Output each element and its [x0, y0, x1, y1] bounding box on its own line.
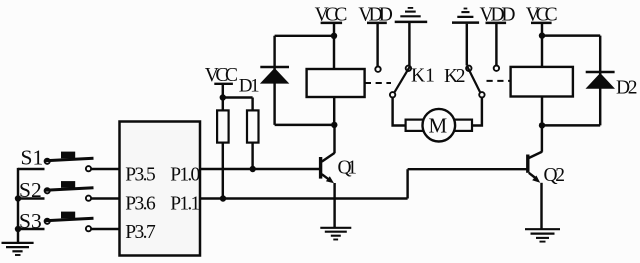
junction VCC-rail right — [539, 32, 545, 38]
svg-text:D2: D2 — [616, 78, 638, 99]
wire S2 to P3.6 — [91, 197, 119, 199]
transistor Q1 — [321, 153, 335, 183]
motor M — [423, 109, 456, 142]
resistor R1 — [217, 110, 229, 142]
contact K2 throw VDD — [494, 66, 499, 71]
wire emitter Q2 to ground — [540, 183, 542, 229]
ground under Q1 — [320, 228, 351, 240]
contact K1 throw GND — [406, 66, 411, 71]
wire K1 common to motor left — [393, 98, 406, 126]
wire collector Q1 riser — [333, 125, 335, 153]
wire S3 to P3.7 — [91, 228, 119, 230]
junction R2-P1.0 — [250, 166, 256, 172]
svg-text:D1: D1 — [239, 76, 260, 97]
svg-text:S1: S1 — [21, 146, 44, 170]
wire D1 branch vertical — [273, 36, 275, 125]
motor M brushes — [406, 120, 424, 131]
wire VCC down to coil K1 — [333, 24, 335, 70]
svg-text:Q2: Q2 — [544, 165, 566, 186]
wire collector Q2 riser — [541, 125, 543, 151]
junction rail-S2 — [15, 195, 21, 201]
svg-text:P1.1: P1.1 — [170, 194, 200, 215]
wire VCC to resistors — [223, 84, 253, 110]
contact K1 throw VDD — [375, 67, 380, 72]
wire net P1.1 to Q2 base — [200, 169, 527, 198]
junction VCC split — [220, 94, 226, 100]
mechanical link K2 (dashed) — [487, 80, 511, 82]
wire R2 to P1.0 net — [251, 143, 253, 169]
wire coil K1 to bottom rail — [333, 97, 335, 125]
wire ground to K2 throw — [466, 24, 468, 66]
svg-text:K1: K1 — [411, 66, 435, 87]
diode D2 — [586, 72, 616, 89]
contact K1 arm — [394, 67, 410, 93]
wire R1 to P1.1 net — [222, 143, 224, 199]
resistor R2 — [247, 110, 259, 142]
svg-text:Q1: Q1 — [338, 158, 358, 179]
relay coil K1 — [307, 69, 365, 97]
svg-text:P3.6: P3.6 — [125, 194, 156, 215]
wire top rail left — [275, 35, 334, 37]
svg-text:P3.7: P3.7 — [125, 222, 156, 243]
ground top-2 (inverted) — [452, 9, 479, 23]
ground top-1 (inverted) — [395, 8, 428, 22]
wire left rail (S1/S2/S3 common) — [17, 168, 19, 242]
contact K1 common — [390, 92, 395, 97]
switch S2 — [18, 181, 94, 201]
junction bottom rail-collector Q2 — [539, 122, 545, 128]
mechanical link K1 (dashed) — [365, 82, 391, 84]
svg-text:P3.5: P3.5 — [125, 165, 156, 186]
wire VDD to K1 throw — [376, 24, 378, 67]
diode D1 — [260, 67, 289, 84]
wire VCC down to coil K2 — [541, 24, 543, 67]
switch S3 — [18, 212, 94, 232]
wire S1 to P3.5 — [91, 168, 119, 170]
wire bottom rail left — [275, 124, 335, 126]
wire bottom rail right — [542, 124, 600, 126]
switch S1 — [18, 152, 94, 172]
wire D2 branch vertical — [599, 36, 601, 126]
contact K2 throw GND — [466, 66, 471, 71]
transistor Q2 — [528, 152, 542, 183]
wire top rail right — [542, 34, 600, 36]
wire K2 common to motor right — [472, 98, 482, 126]
wire emitter Q1 to ground — [333, 183, 335, 228]
wire net P1.0 to Q1 base — [200, 168, 319, 170]
ground at switch rail — [2, 243, 34, 255]
junction VCC-rail left — [331, 33, 337, 39]
junction bottom rail-collector Q1 — [331, 122, 337, 128]
svg-text:P1.0: P1.0 — [170, 165, 200, 186]
wire coil K2 to bottom rail — [541, 97, 543, 126]
relay coil K2 — [511, 67, 573, 97]
svg-text:K2: K2 — [444, 66, 466, 87]
mcu U1 — [120, 122, 201, 256]
junction rail-S3 — [15, 226, 21, 232]
contact K2 common — [479, 92, 484, 97]
ground under Q2 — [525, 229, 560, 241]
wire VDD to K2 throw — [495, 24, 497, 66]
svg-text:M: M — [429, 114, 448, 138]
wire ground to K1 throw — [408, 23, 410, 65]
junction R1-P1.1 — [220, 195, 226, 201]
contact K2 arm — [467, 67, 480, 93]
